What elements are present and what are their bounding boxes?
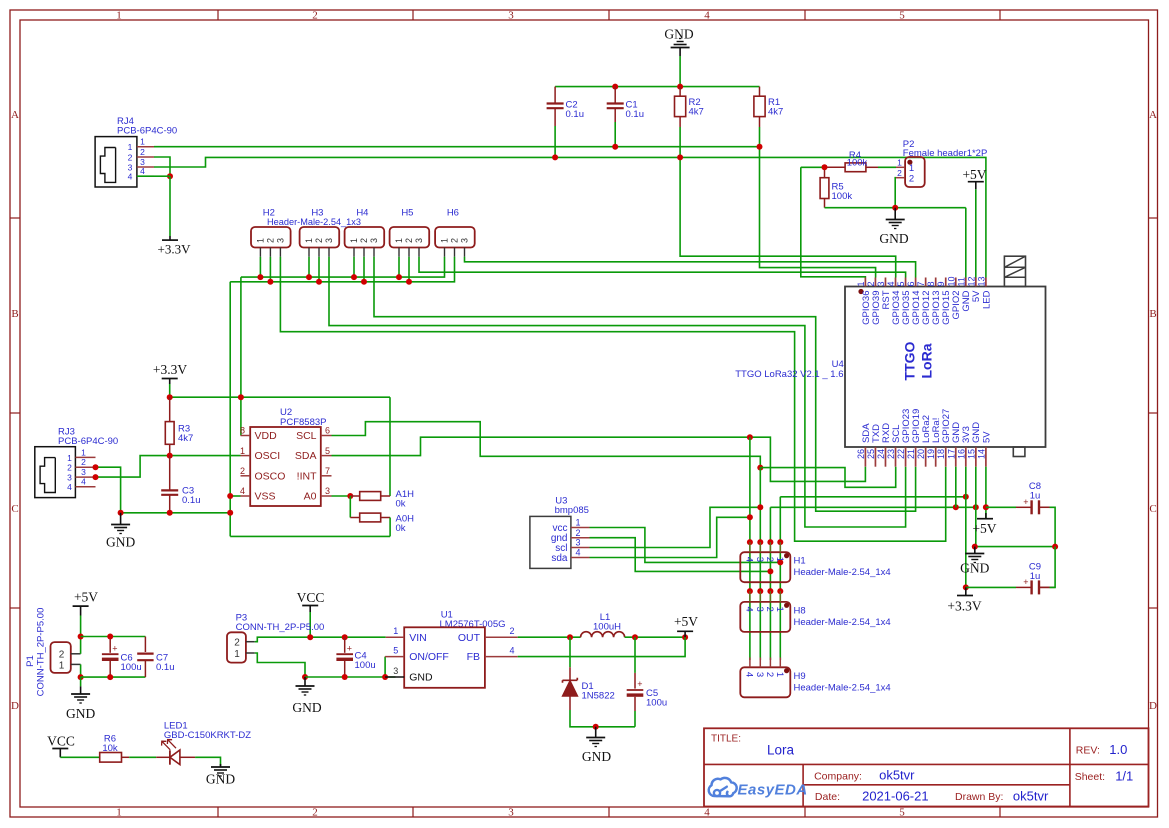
power symbol +5V at pin14	[972, 519, 996, 536]
wire U1 gnd rail	[305, 676, 396, 678]
resistor A0H	[350, 513, 390, 522]
frame row labels right	[1149, 109, 1157, 712]
IC U4 top pin 4 stub	[895, 278, 897, 287]
svg-text:2: 2	[312, 807, 318, 819]
svg-text:100u: 100u	[121, 662, 142, 673]
node junction C4 top	[342, 634, 348, 640]
IC U4 top pin 7 number	[916, 281, 926, 286]
wire SDA column V1 to H1 pin4	[749, 437, 751, 660]
power symbol +5V output	[674, 614, 698, 637]
node junction gnd rail RJ3	[118, 510, 124, 516]
node junction 3V3 at chip pin16	[963, 494, 969, 500]
connector RJ4 pin numbers outer	[140, 137, 145, 177]
node junction H5 pin1 bus	[396, 274, 402, 280]
IC U4 top pin label GPIO36	[861, 291, 872, 325]
svg-text:1: 1	[440, 238, 450, 243]
svg-text:1: 1	[234, 649, 240, 660]
header H9 body	[740, 667, 790, 697]
wire R6 to LED	[129, 756, 156, 758]
svg-text:17: 17	[946, 449, 956, 459]
IC U4 top pin 13 number	[976, 276, 986, 286]
IC U4 top pin label GPIO35	[901, 291, 912, 325]
svg-text:GND: GND	[879, 231, 908, 246]
IC U4 top pin label GPIO34	[891, 291, 902, 325]
IC U4 top pin 1 stub	[864, 278, 866, 287]
wire RJ3 pin2 to gnd	[96, 467, 121, 513]
svg-text:4: 4	[67, 482, 72, 492]
svg-text:Header-Male-2.54_1x4: Header-Male-2.54_1x4	[794, 617, 891, 628]
label GND under P2	[879, 231, 908, 246]
header H3 body	[300, 227, 340, 248]
label LED1 part name	[164, 730, 251, 741]
label R5 value	[832, 182, 853, 203]
svg-text:+: +	[637, 679, 642, 689]
wire H3 pin3 to chip pin22 route	[329, 257, 906, 527]
IC U4 top pin 12 stub	[975, 278, 977, 287]
svg-text:1u: 1u	[1030, 491, 1041, 502]
svg-text:100k: 100k	[847, 157, 868, 168]
node junction H2 pin1 bus	[257, 274, 263, 280]
label GND near RJ3	[106, 535, 135, 550]
IC U4 top pin 8 stub	[935, 278, 937, 287]
svg-text:GND: GND	[206, 772, 235, 787]
svg-text:2: 2	[67, 463, 72, 473]
IC U4 bottom pin 14 stub	[985, 447, 987, 467]
connector RJ3 labels	[58, 427, 118, 448]
wire top gnd rail	[555, 86, 759, 88]
svg-text:3: 3	[754, 606, 765, 611]
svg-text:11: 11	[956, 277, 966, 286]
IC U4 top pin label LED	[981, 290, 992, 309]
svg-text:22: 22	[896, 449, 906, 459]
header H2 pin stubs	[260, 248, 280, 257]
svg-text:4: 4	[509, 646, 514, 656]
svg-text:100k: 100k	[832, 191, 853, 202]
title block logo cell divider	[802, 764, 804, 806]
node junction H3 pin1 bus	[306, 274, 312, 280]
svg-text:2: 2	[404, 238, 414, 243]
svg-text:0.1u: 0.1u	[626, 109, 645, 120]
power symbol +5V at P1	[73, 590, 99, 616]
wire P1 top rail	[81, 636, 146, 638]
svg-text:0k: 0k	[396, 499, 406, 510]
connector RJ3 pin numbers inner	[67, 453, 72, 492]
IC U4 bottom pin 23 number	[886, 449, 896, 459]
svg-text:ON/OFF: ON/OFF	[409, 651, 449, 663]
wire H5 pin1 drop	[398, 257, 400, 277]
label C5	[646, 688, 667, 709]
IC U4 top pin 13 stub	[985, 278, 987, 287]
label R2 value	[689, 97, 704, 118]
svg-text:23: 23	[886, 449, 896, 459]
svg-text:2: 2	[866, 281, 876, 286]
wire P1 pin1 to gnd net	[80, 664, 82, 677]
svg-text:C: C	[1149, 503, 1156, 515]
label L1 value	[593, 622, 621, 633]
header H1 type label	[794, 567, 891, 578]
wire H5 pin2 drop	[408, 257, 410, 282]
label U4 part name	[735, 369, 843, 380]
IC U4 bottom tab	[1013, 447, 1025, 457]
resistor R1	[754, 87, 765, 127]
label A1H	[396, 489, 415, 510]
svg-text:3: 3	[276, 238, 286, 243]
node junction gnd rail pin15	[973, 504, 979, 510]
date value 2021-06-21	[862, 788, 929, 803]
svg-text:CONN-TH_2P-P5.00: CONN-TH_2P-P5.00	[36, 608, 47, 697]
wire D1 branch	[569, 637, 571, 667]
label Drawn By:	[955, 791, 1003, 803]
node junction scl riser at V2	[757, 504, 763, 510]
IC U4 top pin 6 stub	[915, 278, 917, 287]
wire A0 down to A0H	[349, 496, 351, 518]
svg-text:2: 2	[234, 638, 240, 649]
svg-text:19: 19	[926, 449, 936, 459]
svg-text:2: 2	[81, 457, 86, 467]
wire U3 vcc route	[590, 528, 781, 563]
IC U2 right pin 6 SCL	[296, 426, 331, 442]
wire net157 C2 to R2	[555, 156, 680, 158]
svg-text:100uH: 100uH	[593, 622, 621, 633]
connector RJ4 labels	[117, 116, 177, 137]
wire C2 bottom	[554, 126, 556, 157]
node junction C1 top	[612, 84, 618, 90]
svg-text:GND: GND	[664, 27, 693, 42]
wire R1 bottom to pin2 feed	[760, 127, 876, 278]
IC U4 bottom pin 20 stub	[925, 447, 927, 467]
wire C5 bottom	[634, 711, 636, 727]
resistor R6	[100, 753, 130, 763]
svg-text:Lora: Lora	[767, 743, 795, 758]
svg-text:4: 4	[140, 166, 145, 176]
IC U4 bottom pin 17 number	[946, 449, 956, 459]
svg-text:4: 4	[704, 10, 710, 22]
header H1 body	[740, 552, 790, 582]
svg-text:SCL: SCL	[296, 430, 317, 442]
header H9 pin stubs	[750, 658, 780, 668]
svg-text:1: 1	[909, 163, 914, 174]
power symbol +3.3V below RJ4	[158, 240, 192, 256]
svg-text:25: 25	[866, 449, 876, 459]
svg-text:H9: H9	[794, 671, 806, 682]
label D1 designator	[582, 681, 615, 702]
label Company:	[814, 770, 862, 782]
svg-text:1: 1	[140, 137, 145, 147]
header H1 top junction dots	[747, 539, 783, 545]
IC U1 pin 2 OUT	[458, 626, 518, 644]
sheet value 1/1	[1115, 768, 1133, 783]
company value ok5tvr	[879, 768, 915, 783]
svg-text:2021-06-21: 2021-06-21	[862, 788, 929, 803]
svg-text:4: 4	[240, 486, 245, 496]
IC U4 bottom pin label TXD	[871, 424, 882, 443]
svg-text:7: 7	[325, 466, 330, 476]
node junction H5 pin2 bus	[406, 279, 412, 285]
wire C1 bottom	[614, 122, 616, 147]
header H4 label	[356, 208, 368, 219]
node junction +3.3V R3	[167, 394, 173, 400]
svg-text:3: 3	[369, 238, 379, 243]
connector RJ3 body	[35, 447, 76, 498]
wire VCC to R6	[60, 756, 99, 758]
node junction sda riser D4	[747, 514, 753, 520]
connector P2 body	[905, 157, 925, 187]
svg-text:+: +	[347, 644, 352, 654]
svg-text:2: 2	[314, 238, 324, 243]
svg-text:3: 3	[414, 238, 424, 243]
wire +3.3V rail down to A1H	[389, 397, 391, 496]
IC U4 bottom pin 24 stub	[884, 447, 886, 467]
IC U4 top pin 12 number	[966, 276, 976, 286]
connector RJ3 pin stubs	[75, 457, 95, 486]
wire gnd net bottom rail	[230, 535, 390, 537]
header H2 body	[251, 227, 291, 248]
IC U3 pin 4 sda	[551, 548, 589, 564]
node junction C2 bottom	[552, 154, 558, 160]
header H6 label	[447, 208, 459, 219]
node junction gnd C8	[972, 544, 978, 550]
svg-text:3: 3	[324, 238, 334, 243]
label R4 designator	[849, 150, 861, 161]
connector P2 pin numbers inner	[909, 163, 914, 184]
IC U4 top pin 11 number	[956, 277, 966, 286]
ground symbol P3	[296, 677, 315, 695]
IC U4 bottom pin 20 number	[916, 449, 926, 459]
label GND chip right	[960, 561, 989, 576]
header H1 pin numbers	[744, 557, 785, 562]
svg-text:GBD-C150KRKT-DZ: GBD-C150KRKT-DZ	[164, 730, 251, 741]
wire D1 bottom	[570, 710, 635, 727]
IC U4 bottom pin 25 stub	[874, 447, 876, 467]
svg-text:1: 1	[575, 518, 580, 528]
svg-text:4: 4	[81, 477, 86, 487]
svg-text:H1: H1	[794, 556, 806, 567]
svg-text:3: 3	[508, 807, 514, 819]
node junction gnd at H1 pin2	[767, 568, 773, 574]
IC U4 top pin 8 number	[926, 281, 936, 286]
svg-text:TTGO LoRa32 V2.1 _ 1.6: TTGO LoRa32 V2.1 _ 1.6	[735, 369, 843, 380]
svg-text:2: 2	[266, 238, 276, 243]
label C6	[121, 653, 142, 674]
svg-text:0.1u: 0.1u	[156, 662, 175, 673]
svg-text:+5V: +5V	[74, 590, 98, 605]
capacitor C9	[1023, 577, 1055, 594]
wire P2 pin1 link	[878, 166, 896, 168]
wire H3 pin1 drop	[308, 257, 310, 277]
IC U4 bottom pin label GND	[951, 422, 962, 443]
wire VCC down to VIN rail	[309, 612, 311, 637]
wire H2 pin2 drop	[269, 257, 271, 282]
IC U4 bottom pin 18 number	[936, 449, 946, 459]
IC U4 pin1 marker dot	[858, 289, 863, 294]
header H3 pin stubs	[309, 248, 329, 257]
IC U4 top pin 5 number	[896, 281, 906, 286]
svg-text:CONN-TH_2P-P5.00: CONN-TH_2P-P5.00	[236, 622, 325, 633]
header H5 pin stubs	[399, 248, 419, 257]
IC U4 bottom pin 22 stub	[905, 447, 907, 467]
svg-text:Header-Male-2.54_1x4: Header-Male-2.54_1x4	[794, 567, 891, 578]
wire header pin2 bus	[230, 257, 454, 282]
IC U4 TTGO LoRa32 body	[845, 287, 1046, 448]
IC U1 pin 4 FB	[467, 646, 518, 664]
svg-text:H5: H5	[401, 208, 413, 219]
svg-text:3: 3	[876, 281, 886, 286]
connector P2 labels	[903, 139, 988, 159]
wire C5 top branch	[634, 637, 636, 673]
label C7	[156, 653, 175, 674]
wire U3 scl route	[590, 507, 761, 547]
svg-text:GND: GND	[292, 700, 321, 715]
svg-text:1: 1	[856, 281, 866, 286]
connector P1 pin stubs	[71, 654, 81, 665]
power symbol VCC at R6	[47, 734, 75, 758]
svg-text:12: 12	[966, 276, 976, 286]
svg-text:2: 2	[575, 528, 580, 538]
IC U4 top pin label GND	[961, 290, 972, 311]
capacitor C5	[627, 673, 644, 711]
svg-text:2: 2	[764, 557, 775, 562]
svg-text:Drawn By:: Drawn By:	[955, 791, 1003, 803]
power flag GND top net label	[664, 27, 693, 42]
svg-text:LM2576T-005G: LM2576T-005G	[440, 619, 506, 630]
wire +3.3V rail to C9	[966, 586, 1031, 588]
svg-text:3: 3	[460, 238, 470, 243]
title block REV divider	[1069, 728, 1071, 806]
IC U4 bottom pin 19 stub	[935, 447, 937, 467]
wire LED to gnd	[195, 757, 220, 766]
svg-text:sda: sda	[551, 553, 568, 564]
wire L1 to +5V node	[625, 636, 686, 638]
wire U3 gnd route	[590, 538, 771, 572]
svg-text:0.1u: 0.1u	[182, 495, 201, 506]
label C8	[1029, 481, 1041, 502]
power symbol +3.3V mid left	[153, 362, 187, 384]
svg-text:OSCO: OSCO	[255, 470, 286, 482]
svg-text:OUT: OUT	[458, 632, 481, 644]
connector P3 body	[227, 632, 246, 662]
svg-text:100u: 100u	[355, 660, 376, 671]
wire GND top vertical	[679, 56, 681, 87]
wire RJ3 pin3 to OSCI	[96, 456, 241, 478]
wire VSS link	[230, 495, 240, 497]
svg-text:4: 4	[744, 672, 755, 677]
wire gnd rail left	[121, 512, 231, 514]
label P1 designator rotated	[25, 655, 36, 667]
node junction C5 top	[632, 634, 638, 640]
frame row labels left	[11, 109, 19, 712]
svg-text:1: 1	[774, 672, 785, 677]
IC U4 bottom pin label GPIO19	[911, 409, 922, 443]
IC U4 top pin 11 stub	[965, 278, 967, 287]
header H8 type label	[794, 617, 891, 628]
wire RJ4 pin2 jog down	[154, 157, 170, 176]
antenna symbol	[1004, 256, 1025, 286]
title block date row divider	[803, 784, 1070, 786]
svg-text:15: 15	[966, 449, 976, 459]
IC U4 top pin label GPIO15	[941, 291, 952, 325]
wire 3V3 feed line	[780, 496, 966, 498]
label U1 part name	[440, 619, 506, 630]
svg-text:0.1u: 0.1u	[566, 109, 585, 120]
node junction P1 bottom rail	[78, 674, 84, 680]
svg-text:Header-Male-2.54_1x4: Header-Male-2.54_1x4	[794, 682, 891, 693]
wire OUT to L1	[518, 636, 581, 638]
svg-text:2: 2	[450, 238, 460, 243]
svg-text:100u: 100u	[646, 698, 667, 709]
frame column labels top	[116, 10, 905, 22]
svg-text:D: D	[1149, 700, 1157, 712]
svg-text:VIN: VIN	[409, 632, 427, 644]
svg-text:VCC: VCC	[297, 590, 325, 605]
IC U4 top pin 9 number	[936, 281, 946, 286]
svg-text:3: 3	[508, 10, 514, 22]
node junction P2 gnd	[892, 205, 898, 211]
node junction R1 bottom	[757, 144, 763, 150]
label A0H	[396, 514, 415, 535]
IC U4 bottom pin 22 number	[896, 449, 906, 459]
node junction gnd rail pin17	[953, 504, 959, 510]
wire gnd rail mid	[770, 506, 975, 508]
wire P3 pin2 jog to VIN rail	[255, 637, 386, 642]
ground symbol under P2	[886, 208, 905, 229]
IC U4 top pin label GPIO2	[951, 291, 962, 320]
svg-text:+3.3V: +3.3V	[153, 362, 187, 377]
wire R4R5 junction horizontal	[801, 166, 825, 168]
svg-text:10: 10	[946, 276, 956, 286]
connector P3 pin stubs	[246, 642, 255, 653]
svg-text:4: 4	[704, 807, 710, 819]
resistor R4	[825, 163, 879, 172]
svg-text:GND: GND	[106, 535, 135, 550]
IC U2 left pin 2 OSCO	[240, 466, 285, 482]
svg-text:ok5tvr: ok5tvr	[1013, 788, 1049, 803]
wire P1 bottom rail	[81, 676, 146, 678]
IC U4 top pin 10 stub	[955, 278, 957, 287]
IC U1 pin 1 VIN	[386, 626, 427, 644]
label Sheet:	[1075, 771, 1105, 783]
header H9 pin numbers	[744, 672, 785, 677]
wire U3 sda route	[590, 517, 750, 557]
node junction H2 pin2 bus	[267, 279, 273, 285]
IC U4 bottom pin label LoRa2	[921, 415, 932, 443]
node junction R4 R5	[822, 164, 828, 170]
node junction +5V out	[682, 634, 688, 640]
svg-text:TITLE:: TITLE:	[711, 734, 741, 745]
header H1 label	[794, 556, 806, 567]
connector RJ4 pin numbers inner	[128, 142, 133, 182]
node junction vcc at H1 pin1	[777, 559, 783, 565]
LED LED1 symbol	[156, 740, 195, 765]
svg-text:PCB-6P4C-90: PCB-6P4C-90	[58, 436, 118, 447]
ground symbol top (inverted)	[671, 39, 690, 57]
svg-text:Date:: Date:	[815, 791, 840, 803]
wire RJ4 pin1 long	[154, 146, 760, 148]
wire A0 to resistors	[332, 495, 351, 497]
svg-text:1: 1	[116, 807, 122, 819]
node junction +3.3V bus pin1	[238, 394, 244, 400]
wire net157 R2 to chip pin13	[680, 157, 986, 277]
svg-text:1/1: 1/1	[1115, 768, 1133, 783]
wire +3.3V stub to rail	[169, 384, 171, 397]
label GND at P3	[292, 700, 321, 715]
header H8 top junction dots	[747, 588, 783, 594]
node junction P1 top rail	[78, 634, 84, 640]
ground symbol chip right	[965, 547, 984, 563]
svg-text:1: 1	[349, 238, 359, 243]
svg-text:ok5tvr: ok5tvr	[879, 768, 915, 783]
header H4 body	[345, 227, 385, 248]
label C1 value	[626, 100, 645, 121]
